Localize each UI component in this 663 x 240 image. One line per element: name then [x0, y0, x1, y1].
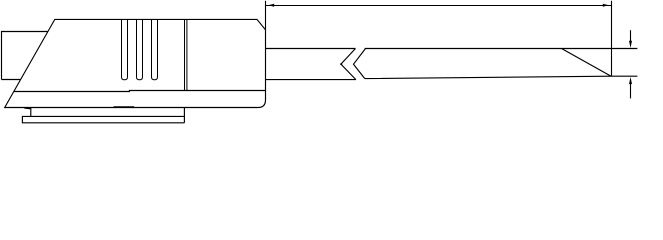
handle body outline	[5, 19, 266, 107]
grip slot 2	[137, 20, 143, 80]
clip post	[30, 108, 32, 117]
thickness dim bottom arrow	[630, 84, 632, 98]
grip slot 1	[122, 20, 128, 80]
break chevron 1 apex dot	[340, 63, 342, 65]
shaft bottom edge	[266, 79, 356, 81]
blade bottom edge (tapered, extends as witness)	[365, 76, 638, 78]
handle mid parting line	[14, 91, 266, 92]
dim arrowhead left	[268, 4, 274, 7]
dim arrowhead right	[603, 4, 609, 7]
witness line right	[611, 1, 613, 76]
bump on bottom edge	[114, 106, 135, 108]
break chevron 2	[354, 49, 366, 79]
separator double line	[185, 20, 187, 91]
clip strip	[22, 116, 184, 122]
thickness dim top arrow	[630, 30, 632, 41]
break chevron 1	[341, 49, 356, 80]
shaft top edge	[266, 48, 356, 50]
grip slot 3	[152, 20, 158, 80]
end cap	[2, 32, 48, 80]
witness line left	[265, 1, 267, 30]
blade top edge (extends as witness)	[365, 48, 638, 50]
clip strip right edge	[183, 108, 185, 123]
length dimension line	[266, 5, 611, 7]
blade bevel line	[562, 49, 612, 77]
step near clip post	[24, 107, 31, 110]
